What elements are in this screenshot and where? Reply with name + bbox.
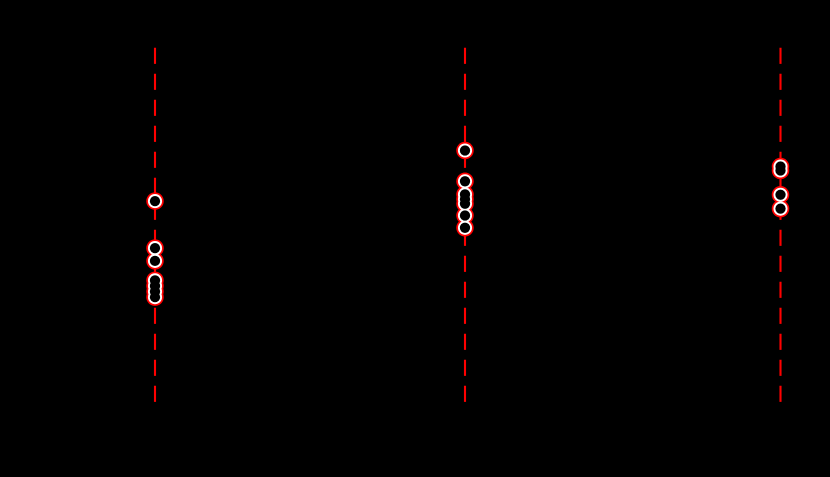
dashed vline 3 <box>779 48 781 402</box>
line3 marker dots (black) <box>775 161 785 213</box>
line2 marker halos (red) <box>456 142 474 237</box>
line1 marker dots (black) <box>150 196 160 302</box>
dashed vline 1 <box>154 48 156 402</box>
line2 marker dots (black) <box>460 145 470 233</box>
line3 marker halos (red) <box>772 158 790 218</box>
line1 marker halos (red) <box>146 192 164 306</box>
line1 marker rings (white) <box>148 194 162 304</box>
line3 marker rings (white) <box>773 159 787 215</box>
line2 marker rings (white) <box>458 143 472 234</box>
dashed vline 2 <box>464 48 466 402</box>
